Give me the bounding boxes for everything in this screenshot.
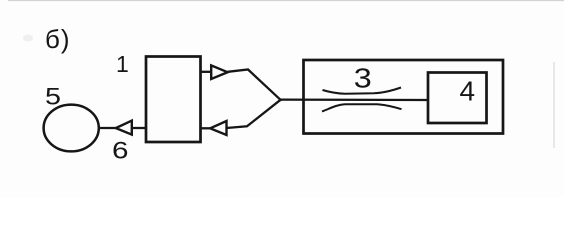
wire triangle 6 to box 1 [132, 127, 146, 129]
box 1 [146, 57, 201, 143]
wire upper triangle to junction [228, 70, 281, 100]
svg-text:4: 4 [460, 76, 476, 107]
svg-text:3: 3 [354, 63, 372, 94]
svg-text:6: 6 [112, 138, 129, 165]
triangle upper (right-pointing) [211, 65, 227, 79]
circle 5 [44, 105, 99, 152]
wire lower triangle to junction [227, 100, 281, 128]
wire box 1 to triangle lower [201, 127, 211, 129]
wire circle to triangle 6 [99, 127, 117, 129]
scan smudge [23, 35, 33, 42]
box 4 [428, 73, 487, 124]
scan artifact: faint right vertical line [553, 62, 555, 148]
scan artifact: faint top edge line [8, 0, 564, 2]
node junction [279, 98, 282, 101]
triangle 6 (left-pointing) [116, 121, 132, 135]
triangle lower (left-pointing) [210, 121, 226, 135]
svg-text:1: 1 [116, 51, 129, 77]
fiber taper lower curve [322, 104, 402, 111]
wire box 1 to triangle upper [201, 71, 212, 73]
fiber taper upper curve [323, 88, 402, 94]
box 3 [304, 60, 504, 134]
wire junction to box 4 [281, 98, 429, 101]
svg-text:б): б) [45, 24, 71, 54]
